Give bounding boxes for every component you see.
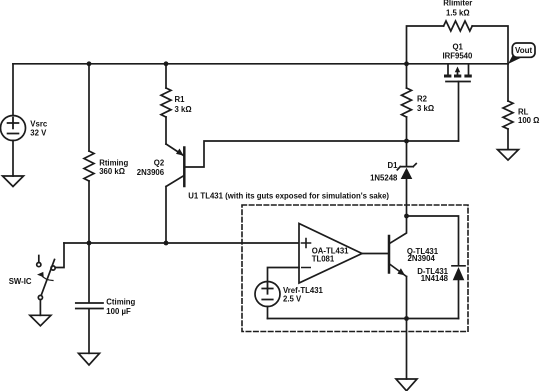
svg-text:1N5248: 1N5248 [370,173,398,182]
svg-text:3 kΩ: 3 kΩ [417,104,434,113]
svg-text:100 µF: 100 µF [106,307,131,316]
svg-text:TL081: TL081 [312,255,335,264]
svg-text:R2: R2 [417,95,428,104]
svg-text:Vout: Vout [515,46,533,55]
svg-text:SW-IC: SW-IC [9,277,32,286]
svg-text:Q1: Q1 [452,42,463,51]
svg-text:2N3904: 2N3904 [408,254,436,263]
svg-text:U1 TL431 (with its guts expose: U1 TL431 (with its guts exposed for simu… [188,192,389,201]
svg-text:1N4148: 1N4148 [421,274,449,283]
svg-text:Vsrc: Vsrc [30,120,48,129]
svg-text:IRF9540: IRF9540 [442,51,473,60]
svg-text:Rlimiter: Rlimiter [443,0,472,8]
svg-text:3 kΩ: 3 kΩ [175,105,192,114]
svg-text:Q2: Q2 [154,159,165,168]
svg-text:32 V: 32 V [30,129,47,138]
svg-text:100 Ω: 100 Ω [518,116,539,125]
svg-text:D1: D1 [388,161,399,170]
svg-text:2N3906: 2N3906 [137,168,165,177]
svg-text:1.5 kΩ: 1.5 kΩ [446,9,470,18]
svg-text:R1: R1 [175,95,186,104]
svg-text:2.5 V: 2.5 V [283,295,302,304]
svg-text:Ctiming: Ctiming [106,298,135,307]
svg-text:360 kΩ: 360 kΩ [99,167,125,176]
